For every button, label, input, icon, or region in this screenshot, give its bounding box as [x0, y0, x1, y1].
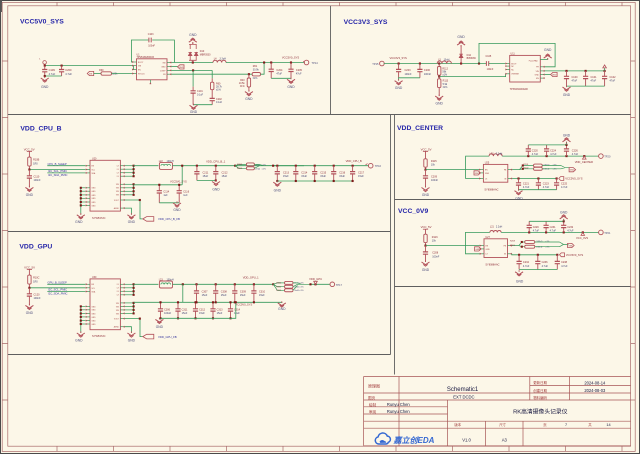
wire caps common ground — [399, 78, 420, 81]
svg-text:100nF: 100nF — [487, 68, 494, 71]
junction out-C213 — [276, 165, 278, 167]
svg-text:GND: GND — [544, 48, 552, 52]
svg-text:GND: GND — [485, 173, 490, 175]
test point TP14 — [304, 60, 309, 65]
svg-text:VCC_0V9: VCC_0V9 — [398, 208, 428, 215]
svg-text:GND: GND — [422, 193, 430, 197]
wire to test point — [311, 283, 331, 285]
svg-text:1R0: 1R0 — [33, 280, 38, 283]
resistor R310 sense — [273, 283, 284, 290]
svg-text:TP14: TP14 — [312, 61, 319, 65]
svg-text:TP17: TP17 — [336, 283, 343, 287]
svg-text:C103: C103 — [148, 33, 154, 36]
resistor R90 — [101, 72, 112, 75]
svg-text:尺寸: 尺寸 — [499, 422, 506, 427]
svg-text:GND: GND — [457, 35, 465, 39]
wire AGND to ground — [125, 208, 132, 215]
svg-text:VDD_GPU_FB: VDD_GPU_FB — [158, 335, 177, 339]
svg-text:VDD_GPU_1: VDD_GPU_1 — [243, 276, 259, 280]
svg-text:VCC_5V: VCC_5V — [24, 265, 35, 269]
wire top ground rail — [528, 144, 566, 146]
svg-text:R306: R306 — [237, 168, 243, 170]
svg-text:RT/CLK: RT/CLK — [138, 74, 145, 76]
svg-text:GND: GND — [128, 338, 136, 342]
svg-text:VCC5V0_SYS: VCC5V0_SYS — [20, 19, 64, 26]
svg-text:2.2uH: 2.2uH — [496, 152, 503, 155]
wire row2 ground rail — [161, 302, 236, 318]
svg-text:SYW5372C: SYW5372C — [92, 216, 106, 220]
wire FB to divider — [512, 166, 533, 170]
svg-text:1R0: 1R0 — [33, 162, 38, 165]
junction bank2 top — [215, 283, 217, 285]
svg-text:VCC5V0_SYS: VCC5V0_SYS — [170, 180, 187, 184]
svg-text:15uF: 15uF — [234, 312, 240, 315]
svg-text:GND: GND — [92, 205, 97, 207]
svg-text:BOOT: BOOT — [138, 62, 144, 64]
svg-text:100nF: 100nF — [431, 179, 439, 182]
test point TP17 — [330, 282, 335, 287]
capacitor C101b — [585, 71, 587, 86]
svg-text:C116: C116 — [183, 190, 189, 193]
svg-text:R201: R201 — [524, 164, 530, 166]
wire sense right rejoin GPU — [293, 283, 311, 290]
row2 capacitor C306 — [160, 302, 162, 318]
wire in caps ground rail — [519, 269, 557, 271]
svg-text:EXT DCDC: EXT DCDC — [453, 395, 474, 400]
svg-text:嘉立创EDA: 嘉立创EDA — [393, 436, 435, 445]
svg-text:100nF: 100nF — [432, 255, 440, 258]
svg-text:R305: R305 — [237, 164, 243, 166]
wire R61 to output — [261, 63, 265, 75]
svg-text:VDD_CPU_B_1: VDD_CPU_B_1 — [206, 159, 226, 163]
svg-text:创建日期: 创建日期 — [533, 388, 547, 393]
wire COMP network — [171, 69, 212, 71]
port P1 input terminal — [43, 61, 47, 65]
junction bank4 top — [253, 283, 255, 285]
wire net I2C_SDA_PMIC — [47, 291, 85, 293]
svg-text:100nF: 100nF — [148, 44, 155, 47]
junction rail-divider — [438, 62, 440, 64]
svg-text:GND: GND — [41, 85, 49, 89]
svg-text:GND: GND — [563, 134, 571, 138]
ground — [215, 180, 217, 182]
capacitor C232 up — [563, 221, 565, 232]
svg-text:1uF: 1uF — [163, 194, 168, 197]
resistor R61 feedback upper — [252, 73, 260, 76]
svg-text:100nH: 100nH — [167, 279, 174, 282]
wire R90 to RT/CLK pin — [112, 73, 133, 75]
svg-text:GND: GND — [92, 317, 97, 319]
svg-text:GND: GND — [278, 307, 286, 311]
svg-text:2mΩ: 2mΩ — [255, 168, 260, 170]
ground flipped — [566, 142, 568, 144]
svg-text:L22: L22 — [159, 160, 164, 163]
capacitor C217 — [352, 166, 354, 181]
svg-text:GND: GND — [26, 311, 34, 315]
svg-text:GND: GND — [161, 67, 166, 69]
svg-text:GND: GND — [156, 325, 164, 329]
svg-text:R311: R311 — [276, 286, 282, 288]
wire VDD_CPU_B_1 output — [134, 165, 159, 167]
svg-text:C311: C311 — [182, 308, 188, 311]
wire VOUT to FB flag — [125, 200, 143, 219]
wire LX loop — [466, 156, 490, 178]
svg-text:VCC_5V: VCC_5V — [24, 147, 35, 151]
wire cap commons to ground — [45, 75, 62, 77]
junction input-C109 — [44, 65, 46, 67]
capacitor C231 up — [545, 221, 547, 232]
junction output-R61 — [263, 61, 265, 63]
resistor R202 feedback — [534, 167, 543, 170]
junction output-C205 — [290, 61, 292, 63]
svg-text:C221: C221 — [523, 183, 530, 186]
svg-text:V1.0: V1.0 — [462, 437, 471, 442]
wire chip left GND rail — [80, 306, 82, 332]
svg-text:MBR0530: MBR0530 — [200, 53, 211, 56]
capacitor C215 — [314, 166, 316, 181]
capacitor C100 — [566, 71, 568, 86]
wire VIN rail riser — [181, 166, 183, 185]
junction bank3 top — [234, 283, 236, 285]
svg-text:C204: C204 — [276, 69, 283, 72]
svg-text:GND: GND — [245, 97, 253, 101]
svg-text:C114: C114 — [163, 190, 169, 193]
net flag EN — [87, 71, 94, 75]
wire net I2C_SDA_PMIC — [47, 172, 85, 174]
svg-text:SY8088AAC: SY8088AAC — [484, 188, 498, 191]
logo cloud icon — [375, 433, 390, 444]
svg-text:14: 14 — [606, 423, 610, 427]
wire after inductor — [173, 165, 305, 167]
junction out-C232 — [563, 231, 565, 233]
wire after inductor — [173, 283, 274, 285]
svg-text:2024-08-03: 2024-08-03 — [584, 388, 606, 393]
svg-text:SCL: SCL — [92, 169, 96, 171]
svg-text:SYW5372C: SYW5372C — [92, 334, 106, 338]
svg-text:L21: L21 — [490, 225, 495, 228]
svg-text:GND: GND — [92, 198, 97, 200]
svg-text:VDD_CENTER: VDD_CENTER — [575, 160, 593, 164]
capacitor C114 — [158, 185, 160, 203]
wire GND pin to flag — [171, 66, 177, 68]
junction out-C224 — [546, 155, 548, 157]
resistor R201 feedback — [534, 164, 543, 167]
svg-text:4.7uF: 4.7uF — [65, 72, 72, 76]
svg-text:15uF: 15uF — [202, 294, 208, 297]
svg-text:VCC_5V: VCC_5V — [421, 147, 432, 151]
junction EN node — [424, 169, 426, 171]
svg-text:C314: C314 — [234, 308, 241, 311]
svg-text:RK高清摄像头记录仪: RK高清摄像头记录仪 — [513, 407, 568, 415]
svg-text:GND: GND — [173, 208, 181, 212]
svg-text:R10B: R10B — [33, 159, 40, 162]
resistor R113 feedback lower — [438, 77, 440, 79]
svg-text:GND: GND — [516, 280, 524, 284]
power port 5V input — [604, 68, 606, 71]
ground — [158, 318, 160, 320]
capacitor C226 up — [566, 145, 568, 156]
svg-text:VDD_CPU_B: VDD_CPU_B — [20, 125, 61, 132]
resistor R305 sense — [235, 164, 246, 168]
row2 capacitor C313 — [212, 302, 214, 318]
svg-text:U11: U11 — [511, 53, 516, 56]
svg-text:GND: GND — [560, 210, 568, 214]
resistor R208 feedback — [525, 241, 535, 244]
svg-text:GND: GND — [287, 85, 295, 89]
junction EN node — [424, 245, 426, 247]
svg-text:GND: GND — [274, 188, 282, 192]
svg-text:15uF: 15uF — [240, 294, 246, 297]
svg-text:4.7uF: 4.7uF — [567, 230, 574, 233]
svg-text:Schematic1: Schematic1 — [447, 387, 479, 393]
svg-text:C234: C234 — [523, 261, 530, 264]
svg-text:GND: GND — [92, 324, 97, 326]
test point TP15 — [380, 61, 385, 66]
ground — [80, 331, 82, 333]
svg-text:15uF: 15uF — [199, 312, 205, 315]
svg-text:100nF: 100nF — [34, 179, 42, 182]
junction rail-PH loop — [478, 62, 480, 64]
capacitor C102 — [604, 71, 606, 86]
ground — [281, 301, 283, 303]
svg-text:Runyu Chen: Runyu Chen — [387, 402, 410, 407]
wire C211 C212 ground rail — [197, 180, 216, 182]
svg-text:C310: C310 — [259, 291, 266, 294]
svg-text:物料编码: 物料编码 — [533, 395, 547, 400]
junction out2 — [314, 283, 316, 285]
svg-text:15uF: 15uF — [283, 175, 289, 178]
net flag GND right of U11 — [545, 74, 551, 76]
svg-text:I2C_SDA_PMIC: I2C_SDA_PMIC — [48, 292, 67, 296]
resistor R10B — [28, 151, 30, 157]
svg-text:C223: C223 — [543, 183, 550, 186]
svg-text:4.7uF: 4.7uF — [561, 186, 568, 189]
wire PowerPAD to ground — [540, 58, 547, 59]
svg-text:C100: C100 — [572, 76, 579, 79]
wire R10C to rail — [29, 287, 85, 289]
wire diode branch — [192, 60, 194, 62]
resistor R40 feedback lower — [248, 74, 250, 78]
junction VCC5V branch — [28, 168, 30, 170]
resistor R311 sense — [285, 285, 294, 288]
ground — [566, 86, 568, 88]
junction sense left — [234, 165, 236, 167]
svg-text:TP15: TP15 — [372, 62, 379, 66]
svg-text:GND: GND — [179, 67, 184, 69]
svg-text:GND: GND — [212, 188, 220, 192]
svg-text:GND: GND — [422, 268, 430, 272]
junction riser-output — [181, 165, 183, 167]
svg-text:C309: C309 — [240, 291, 247, 294]
junction output port — [582, 231, 584, 233]
svg-text:GND: GND — [75, 220, 83, 224]
svg-text:4.7uF: 4.7uF — [550, 230, 557, 233]
junction top rail — [565, 144, 567, 146]
svg-text:C231: C231 — [550, 226, 557, 229]
svg-text:GPU_B_SLEEP: GPU_B_SLEEP — [48, 281, 67, 285]
junction out-C220 — [527, 155, 529, 157]
svg-text:30.9k: 30.9k — [253, 68, 260, 71]
inductor L20 — [489, 154, 502, 156]
ground — [176, 201, 178, 203]
wire EN tie to VIN — [132, 66, 133, 70]
svg-text:GND: GND — [395, 86, 403, 90]
wire SW node — [171, 62, 213, 64]
wire AGND to ground — [125, 327, 132, 333]
capacitor C209 — [425, 170, 427, 188]
ground — [80, 213, 82, 215]
svg-text:C215: C215 — [320, 171, 327, 174]
svg-text:15uF: 15uF — [182, 312, 188, 315]
capacitor C212 — [215, 166, 217, 181]
junction rail-diode — [460, 62, 462, 64]
svg-text:VCC5V0_SYS: VCC5V0_SYS — [565, 177, 583, 181]
capacitor C206 — [419, 64, 421, 78]
svg-text:C307: C307 — [202, 291, 209, 294]
svg-text:版本: 版本 — [454, 422, 461, 427]
svg-text:C212: C212 — [222, 171, 229, 174]
svg-text:C101: C101 — [591, 76, 598, 79]
wire output caps ground rail — [271, 77, 291, 79]
capacitor C224 up — [546, 145, 548, 156]
power port VCC_0V9 — [581, 232, 585, 235]
svg-text:GND: GND — [486, 249, 491, 251]
svg-text:U27: U27 — [485, 236, 490, 239]
svg-text:15uF: 15uF — [301, 175, 307, 178]
capacitor C309 — [234, 284, 236, 302]
svg-text:VDD_CPU_B: VDD_CPU_B — [346, 159, 362, 163]
wire VIN tie rail — [133, 303, 135, 314]
wire bootstrap to SW — [152, 40, 174, 63]
ground — [28, 304, 30, 306]
net flag GND right — [569, 168, 576, 172]
capacitor C202 — [211, 90, 213, 105]
svg-text:15uF: 15uF — [259, 294, 265, 297]
svg-text:GND: GND — [92, 202, 97, 204]
svg-text:SW: SW — [162, 63, 165, 65]
svg-text:GND: GND — [568, 245, 573, 247]
svg-text:U30: U30 — [92, 276, 97, 279]
svg-text:4.7uF: 4.7uF — [572, 153, 579, 156]
svg-text:VSENSE: VSENSE — [511, 74, 519, 76]
svg-text:47uF: 47uF — [572, 80, 578, 83]
wire FB network — [171, 73, 252, 75]
svg-text:TP20: TP20 — [604, 155, 611, 159]
svg-text:C203: C203 — [405, 69, 412, 72]
inductor L22 — [159, 162, 172, 169]
svg-text:C229: C229 — [533, 226, 540, 229]
svg-text:I2C_SDA_PMIC: I2C_SDA_PMIC — [48, 173, 67, 177]
svg-text:4.7uF: 4.7uF — [533, 230, 540, 233]
ground — [44, 76, 46, 78]
junction bank2 — [314, 165, 316, 167]
svg-text:C220: C220 — [532, 149, 539, 152]
svg-text:100k: 100k — [112, 73, 118, 76]
transistor U20 power stage SYW5372C — [86, 158, 125, 220]
svg-text:GND: GND — [26, 193, 34, 197]
svg-text:原理图: 原理图 — [368, 382, 380, 388]
diode D10 dual schottky — [188, 44, 198, 60]
svg-text:GND: GND — [570, 170, 575, 172]
svg-text:GND: GND — [75, 338, 83, 342]
svg-text:R116: R116 — [432, 236, 438, 239]
svg-text:C110: C110 — [34, 175, 40, 178]
op-amp U27 buck converter SY8088AAC — [480, 236, 512, 266]
ground — [425, 260, 427, 262]
ground — [193, 104, 195, 106]
capacitor C307 — [196, 284, 198, 302]
svg-text:47uF: 47uF — [276, 73, 282, 76]
capacitor C116 — [178, 185, 180, 203]
wire VIN caps ground rail — [567, 85, 605, 87]
svg-text:TP21: TP21 — [604, 231, 611, 235]
svg-text:C206: C206 — [424, 69, 431, 72]
svg-text:15uF: 15uF — [358, 175, 364, 178]
svg-text:AGND: AGND — [114, 326, 120, 329]
wire diode top to ground — [192, 42, 194, 44]
svg-text:R115: R115 — [431, 160, 437, 163]
wire rail to ground — [281, 301, 283, 304]
resistor R209 feedback — [525, 245, 535, 248]
svg-text:C211: C211 — [203, 171, 209, 174]
capacitor C238 — [556, 255, 558, 270]
svg-text:4.7uF: 4.7uF — [550, 153, 557, 156]
wire LX tie rail — [133, 166, 135, 177]
wire top ground rail — [529, 220, 564, 222]
svg-text:15uF: 15uF — [222, 175, 228, 178]
junction riser-output — [182, 283, 184, 285]
wire in caps ground rail — [519, 189, 557, 191]
svg-text:47uF: 47uF — [296, 73, 302, 76]
capacitor C234 — [518, 255, 520, 270]
svg-text:C214: C214 — [301, 171, 308, 174]
capacitor C223 — [537, 179, 539, 190]
capacitor C229 up — [528, 221, 530, 232]
junction feedback node — [438, 76, 440, 78]
wire VIN rail — [545, 70, 605, 72]
resistor R115 — [425, 151, 427, 158]
svg-text:15uF: 15uF — [203, 175, 209, 178]
svg-text:15uF: 15uF — [320, 175, 326, 178]
power port VDD_GPU — [314, 281, 318, 284]
svg-text:绘制: 绘制 — [369, 402, 377, 407]
op-amp U11 buck converter TPS54302 — [505, 53, 544, 92]
junction output-C204 — [270, 61, 272, 63]
svg-text:0.1uF: 0.1uF — [216, 101, 223, 104]
svg-text:C120: C120 — [34, 293, 41, 296]
ground — [398, 79, 400, 81]
svg-text:100nF: 100nF — [405, 73, 413, 76]
svg-text:GND: GND — [92, 188, 97, 190]
ground — [28, 186, 30, 188]
svg-text:GND: GND — [92, 191, 97, 193]
ground flipped — [460, 45, 462, 47]
svg-text:CPU_B_SLEEP: CPU_B_SLEEP — [48, 162, 67, 166]
svg-text:4.7uF: 4.7uF — [561, 265, 568, 268]
svg-text:GND: GND — [563, 93, 571, 97]
wire net CPU_B_SLEEP — [47, 165, 85, 167]
svg-text:4.7uF: 4.7uF — [523, 265, 530, 268]
net flag VCC5V0_SYS input — [560, 253, 565, 257]
wire VIN riser GPU — [182, 284, 184, 302]
capacitor C216 — [333, 166, 335, 181]
svg-text:R209: R209 — [510, 245, 516, 247]
svg-text:±1%: ±1% — [262, 168, 266, 170]
svg-text:GND: GND — [128, 220, 136, 224]
svg-text:R208: R208 — [510, 241, 516, 243]
svg-text:4.7uF: 4.7uF — [532, 153, 539, 156]
svg-text:7: 7 — [565, 423, 567, 427]
